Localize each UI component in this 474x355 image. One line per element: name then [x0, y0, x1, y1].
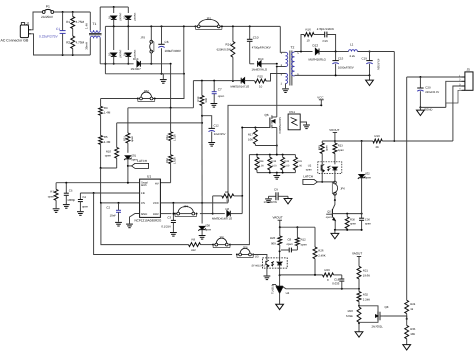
ground R50	[355, 323, 363, 337]
svg-text:22uF/25V: 22uF/25V	[214, 133, 226, 136]
svg-text:GND: GND	[141, 212, 147, 216]
svg-text:1N4007: 1N4007	[118, 50, 121, 59]
resistor R2	[66, 36, 84, 55]
wire J1 pin2 to bottom rail	[31, 34, 63, 55]
jumper JP2	[137, 89, 156, 101]
wire secondary top	[295, 51, 313, 53]
zener Z01	[124, 143, 138, 183]
diode D2	[123, 7, 136, 26]
svg-text:Q2: Q2	[327, 210, 331, 213]
svg-text:1000p: 1000p	[67, 198, 75, 202]
wire divider to CS	[100, 168, 102, 204]
svg-text:NCP1219AD65R2G: NCP1219AD65R2G	[135, 218, 162, 222]
svg-text:R15: R15	[258, 74, 264, 78]
svg-text:2K: 2K	[376, 145, 380, 149]
svg-text:TL431B: TL431B	[271, 284, 274, 294]
capacitor C4	[77, 193, 89, 215]
svg-text:MUR420RLG: MUR420RLG	[309, 57, 327, 61]
capacitor C5	[63, 183, 76, 209]
ground T2 aux	[282, 84, 289, 93]
svg-text:open: open	[48, 195, 55, 199]
latch flag 2	[303, 175, 335, 185]
svg-text:open: open	[131, 136, 134, 142]
wire primary bottom to drain	[276, 66, 286, 68]
svg-text:2.24K: 2.24K	[363, 298, 370, 302]
wire VCC charge rail	[193, 80, 240, 82]
wire FB row	[80, 192, 139, 194]
svg-text:1.4M: 1.4M	[104, 140, 111, 144]
svg-text:JP3: JP3	[140, 37, 145, 40]
svg-text:C3: C3	[167, 215, 171, 219]
svg-text:1.4M: 1.4M	[104, 111, 111, 115]
diode D10	[252, 57, 268, 71]
svg-text:R13: R13	[197, 96, 200, 101]
svg-text:4700pF/K/3KV: 4700pF/K/3KV	[252, 45, 271, 49]
wire FB column	[94, 193, 233, 255]
resistor R3	[99, 99, 111, 116]
inductor L1	[349, 42, 358, 58]
svg-text:412: 412	[191, 248, 196, 252]
svg-text:6.04k: 6.04k	[346, 314, 353, 318]
svg-text:1N4007: 1N4007	[131, 67, 142, 71]
resistor R26	[313, 227, 326, 275]
diode D7	[231, 78, 250, 89]
diode D12	[309, 43, 336, 61]
svg-text:JP4: JP4	[183, 205, 188, 209]
jumper JP5	[212, 235, 231, 247]
connector J1	[20, 21, 31, 37]
resistor Rb2	[166, 141, 176, 183]
resistor R33	[268, 155, 277, 173]
transformer T1	[85, 7, 102, 64]
svg-text:C16: C16	[323, 39, 329, 43]
svg-text:HS1: HS1	[289, 110, 295, 114]
svg-text:JP2: JP2	[144, 89, 149, 93]
wire JP5 riser	[230, 155, 249, 245]
svg-text:T2: T2	[291, 46, 295, 50]
svg-text:C15: C15	[338, 56, 344, 60]
svg-text:R6: R6	[225, 190, 229, 194]
svg-text:FB: FB	[141, 191, 145, 195]
wire D7 to R15	[245, 80, 255, 82]
wire sense top rail	[249, 154, 295, 156]
wire gate row	[241, 127, 268, 129]
svg-text:open: open	[301, 243, 308, 247]
svg-text:R31: R31	[123, 136, 126, 141]
wire secondary return	[295, 74, 371, 76]
wire DRV row	[160, 213, 213, 215]
svg-text:open: open	[365, 223, 371, 226]
svg-text:HV: HV	[155, 181, 159, 185]
svg-text:R30: R30	[350, 218, 355, 221]
wire VOUT drop	[393, 52, 395, 143]
wire sense bottom rail	[257, 172, 295, 174]
wire R17 return	[255, 145, 277, 147]
svg-text:39mH: 39mH	[85, 42, 89, 50]
svg-text:C6: C6	[165, 40, 169, 44]
ground sense	[273, 173, 280, 180]
resistor R17	[248, 128, 257, 146]
wire CS column	[101, 203, 189, 245]
diode D3	[109, 26, 122, 64]
jumper JP6	[332, 174, 345, 196]
svg-text:R23: R23	[338, 144, 343, 147]
svg-text:100uF/400V: 100uF/400V	[165, 49, 181, 53]
snubber R16 C16	[301, 27, 336, 51]
svg-text:VAOUT: VAOUT	[352, 252, 362, 256]
capacitor C7	[211, 81, 225, 108]
capacitor C15	[332, 52, 353, 76]
capacitor C19	[362, 52, 380, 76]
capacitor C1	[39, 12, 66, 55]
resistor R13 column	[197, 81, 208, 203]
svg-text:U2: U2	[308, 165, 312, 168]
svg-text:JP1: JP1	[206, 16, 211, 20]
svg-text:R33: R33	[272, 160, 277, 163]
net VAOUT 2	[352, 252, 362, 267]
wire top rail	[54, 11, 91, 13]
svg-text:1000uF/35V: 1000uF/35V	[338, 66, 354, 70]
wire VAOUT row	[279, 226, 315, 228]
diode D4	[123, 26, 136, 64]
wire J5 pin3	[453, 86, 462, 141]
capacitor C3	[161, 203, 176, 236]
shunt U4 TL431	[271, 275, 289, 309]
wire R29 row	[280, 274, 323, 276]
zener Z08	[198, 203, 211, 239]
capacitor C2	[106, 203, 121, 226]
svg-text:R27: R27	[318, 145, 321, 150]
svg-text:C12: C12	[214, 124, 220, 128]
svg-text:10: 10	[226, 199, 230, 203]
svg-text:10nF: 10nF	[110, 214, 117, 218]
resistor R22	[357, 289, 370, 307]
transistor Q8	[359, 305, 389, 328]
wire riser rail A to HV	[170, 64, 172, 108]
svg-text:909: 909	[271, 241, 276, 245]
wire Snap row	[56, 182, 140, 184]
svg-text:D6: D6	[226, 207, 230, 211]
svg-text:47uF/35V: 47uF/35V	[376, 59, 379, 71]
svg-text:CS: CS	[141, 201, 145, 205]
svg-text:C8: C8	[288, 237, 292, 241]
svg-text:R26: R26	[318, 248, 324, 252]
svg-text:R32: R32	[284, 160, 289, 163]
svg-text:220uF/6.3V: 220uF/6.3V	[425, 91, 439, 94]
svg-text:D4: D4	[123, 52, 126, 56]
svg-text:SFH615A-2: SFH615A-2	[252, 264, 266, 267]
wire AC2 drop	[104, 26, 106, 73]
svg-text:R32: R32	[363, 292, 369, 296]
zener Z02	[358, 141, 372, 214]
svg-text:R7: R7	[50, 190, 54, 194]
svg-text:10K: 10K	[248, 137, 253, 141]
capacitor C6	[158, 26, 181, 73]
svg-text:R3: R3	[104, 106, 108, 110]
svg-text:470pF/1/2KW: 470pF/1/2KW	[317, 27, 334, 31]
svg-text:LATCH: LATCH	[303, 175, 313, 179]
wire row108 to VCCrail riser	[192, 81, 194, 108]
capacitor C9	[264, 187, 292, 204]
svg-text:1.00: 1.00	[284, 165, 290, 168]
svg-text:open: open	[218, 94, 225, 98]
svg-text:AC Connector GB: AC Connector GB	[1, 39, 29, 43]
capacitor C10	[247, 26, 271, 63]
svg-text:C10: C10	[253, 35, 259, 39]
svg-text:1.00: 1.00	[272, 165, 278, 168]
svg-text:VCC: VCC	[153, 201, 159, 205]
resistor R31b	[293, 155, 302, 173]
svg-text:R29: R29	[325, 268, 331, 272]
svg-text:2A/250V: 2A/250V	[41, 15, 54, 19]
svg-text:open: open	[325, 145, 328, 151]
resistor R50	[346, 307, 361, 324]
resistor R20	[270, 227, 282, 251]
svg-text:500: 500	[205, 98, 208, 103]
jumper JP3 vertical	[140, 26, 154, 63]
svg-text:JP8: JP8	[243, 245, 248, 249]
wire SGND rail	[420, 106, 445, 108]
capacitor C8	[281, 237, 297, 252]
wire rail B	[105, 73, 185, 75]
svg-text:open: open	[350, 222, 356, 225]
wire gate col	[241, 128, 243, 197]
ground SGND C20	[417, 107, 433, 115]
svg-text:620K/0.5W: 620K/0.5W	[217, 48, 232, 52]
svg-text:D12: D12	[313, 43, 319, 47]
resistor R25	[357, 266, 370, 289]
svg-text:R21: R21	[363, 268, 369, 272]
wire output row	[335, 51, 395, 53]
jumper JP8	[236, 245, 254, 257]
svg-text:C20: C20	[425, 85, 431, 89]
heatsink HS1	[288, 110, 310, 130]
svg-text:MMSD4148T1G: MMSD4148T1G	[212, 216, 232, 220]
wire J1 pin1 to fuse	[31, 12, 42, 30]
svg-text:open: open	[365, 175, 372, 179]
svg-text:open: open	[105, 154, 112, 158]
ground SGND out	[366, 75, 374, 85]
svg-text:latch: latch	[141, 184, 147, 187]
resistor R31	[123, 108, 134, 143]
wire R19 rail	[322, 140, 453, 142]
svg-text:LATCH: LATCH	[137, 159, 147, 163]
svg-text:DRV: DRV	[153, 212, 159, 216]
svg-text:D1: D1	[109, 15, 112, 19]
svg-text:Q8: Q8	[385, 305, 389, 309]
resistor R14	[217, 26, 235, 82]
svg-text:VCC: VCC	[317, 95, 323, 99]
svg-text:0.033: 0.033	[332, 282, 339, 286]
wire bulk to T2 primary	[280, 26, 285, 52]
wire HV pin	[160, 182, 170, 184]
resistor Rb1	[166, 108, 176, 141]
svg-text:JP5: JP5	[219, 235, 224, 239]
fuse F1	[41, 4, 54, 18]
resistor R6	[213, 190, 243, 203]
wire VCC row	[160, 202, 228, 204]
resistor R23	[333, 141, 344, 162]
svg-text:R16: R16	[306, 28, 312, 32]
svg-text:0.22uF/275V: 0.22uF/275V	[39, 35, 58, 39]
wire rail A	[100, 63, 171, 65]
resistor R19	[373, 134, 382, 149]
resistor R35	[405, 319, 416, 345]
svg-text:R50: R50	[348, 309, 354, 313]
svg-text:J1: J1	[26, 21, 30, 25]
resistor R15	[255, 74, 266, 88]
svg-text:R24: R24	[410, 302, 416, 306]
svg-text:R1: R1	[66, 20, 70, 24]
wire clamp row	[250, 63, 278, 65]
ground under rail B	[160, 74, 167, 83]
net VAOUT 1	[273, 215, 283, 227]
svg-text:MMSD914T1G: MMSD914T1G	[231, 85, 250, 89]
svg-text:1.53K: 1.53K	[173, 134, 176, 141]
svg-text:C5: C5	[69, 188, 73, 192]
wire row 108	[128, 107, 193, 109]
svg-text:1.62K: 1.62K	[173, 157, 176, 164]
connector J5	[459, 68, 473, 91]
svg-text:C9: C9	[274, 187, 278, 191]
wire VCC rail	[228, 104, 322, 203]
svg-text:VAOUT: VAOUT	[273, 215, 283, 219]
resistor R9	[189, 238, 214, 252]
svg-text:F1: F1	[46, 4, 50, 8]
svg-text:open: open	[306, 169, 312, 172]
svg-text:U3: U3	[255, 254, 259, 258]
capacitor C20	[417, 77, 439, 108]
svg-text:4.75M: 4.75M	[76, 20, 85, 24]
svg-text:U1: U1	[147, 175, 151, 179]
wire bulk rail	[105, 25, 280, 27]
svg-text:D3: D3	[109, 52, 112, 56]
resistor R10	[105, 147, 119, 158]
ground U1 GND pin	[126, 214, 140, 228]
wire Q8 gate row	[384, 316, 407, 319]
resistor R32	[281, 155, 290, 173]
svg-text:R31: R31	[297, 160, 302, 163]
svg-text:1.00: 1.00	[259, 165, 265, 168]
svg-text:D2: D2	[123, 15, 126, 19]
wire FB to opto	[253, 255, 267, 258]
svg-text:1.4A: 1.4A	[85, 23, 89, 29]
svg-text:10: 10	[259, 85, 263, 89]
svg-text:T1: T1	[93, 22, 97, 26]
svg-text:D10: D10	[258, 57, 264, 61]
capacitor C36	[359, 214, 371, 230]
svg-text:2N7002L: 2N7002L	[372, 325, 384, 329]
jumper JP4	[174, 205, 198, 217]
transistor Q2	[326, 194, 336, 230]
ground Q2	[331, 230, 339, 239]
svg-text:1.00: 1.00	[297, 165, 303, 168]
svg-text:C2: C2	[106, 206, 110, 210]
svg-text:R9: R9	[192, 238, 196, 242]
wire aux top to R15	[266, 74, 285, 82]
diode D13	[131, 57, 142, 71]
wire Q2 emitter rail	[334, 229, 363, 231]
label AC Connector GB	[1, 39, 29, 43]
wire J5 pin1 rail	[407, 76, 462, 78]
svg-text:Q6: Q6	[264, 113, 268, 117]
svg-text:R2: R2	[66, 41, 70, 45]
wire R30 C36 top rail	[332, 213, 362, 215]
wire railB corner to JP2 row	[101, 74, 184, 99]
svg-text:1N4007: 1N4007	[118, 13, 121, 22]
capacitor C18	[332, 275, 344, 289]
opto LED	[277, 250, 282, 276]
latch flag 1	[128, 159, 149, 168]
svg-text:4.75M: 4.75M	[76, 41, 85, 45]
resistor R29	[323, 268, 342, 282]
svg-text:open: open	[82, 205, 89, 209]
resistor R12	[295, 227, 307, 250]
wire bottom rail	[62, 54, 91, 56]
svg-text:1nF/4KON: 1nF/4KON	[264, 200, 277, 204]
svg-text:Rb1: Rb1	[166, 135, 169, 140]
svg-text:C7: C7	[218, 87, 222, 91]
svg-text:2.49K: 2.49K	[318, 254, 325, 258]
svg-text:C4: C4	[82, 195, 86, 199]
svg-text:R19: R19	[375, 134, 381, 138]
transistor Q6	[264, 67, 281, 155]
wire gate row left	[117, 122, 203, 124]
resistor R24	[405, 300, 416, 320]
wire bulk to railB riser	[183, 26, 185, 73]
svg-text:R12: R12	[301, 238, 307, 242]
svg-text:C19: C19	[362, 56, 368, 60]
svg-text:19.6K: 19.6K	[363, 274, 370, 278]
svg-text:Rb2: Rb2	[166, 158, 169, 163]
svg-text:C36: C36	[365, 219, 370, 222]
svg-text:L1: L1	[350, 42, 354, 46]
svg-text:open: open	[205, 227, 212, 231]
svg-text:D13: D13	[133, 57, 139, 61]
resistor R1	[66, 12, 84, 36]
resistor R34	[255, 155, 264, 173]
capacitor C12	[202, 116, 226, 146]
ground opto emitter	[264, 268, 271, 280]
transformer T2	[281, 46, 300, 86]
label sense gnd	[0, 0, 1, 1]
wire J5 pin2	[446, 81, 462, 107]
ground R35	[403, 345, 411, 350]
jumper JP1	[195, 16, 223, 29]
svg-text:R5: R5	[104, 135, 108, 139]
wire CS row	[101, 202, 140, 204]
svg-text:U4: U4	[286, 291, 290, 295]
svg-text:open: open	[338, 149, 344, 152]
optocoupler U2 open	[306, 162, 342, 174]
svg-text:R17: R17	[248, 132, 254, 136]
svg-text:1N4007: 1N4007	[133, 13, 136, 22]
resistor R30	[345, 214, 356, 230]
svg-text:SPA07N60C3: SPA07N60C3	[278, 117, 281, 134]
svg-text:10: 10	[307, 39, 311, 43]
net VHOUT	[329, 128, 339, 141]
svg-text:1N4937RLG: 1N4937RLG	[252, 67, 268, 71]
svg-text:R20: R20	[270, 236, 276, 240]
resistor R27	[318, 141, 329, 183]
resistor R5	[99, 115, 111, 144]
wire R24 column	[406, 77, 408, 300]
svg-text:JP6: JP6	[340, 187, 345, 190]
svg-text:R35: R35	[410, 327, 416, 331]
diode D6	[212, 207, 242, 220]
svg-text:open: open	[326, 216, 332, 219]
wire J5 pin4	[446, 90, 462, 107]
